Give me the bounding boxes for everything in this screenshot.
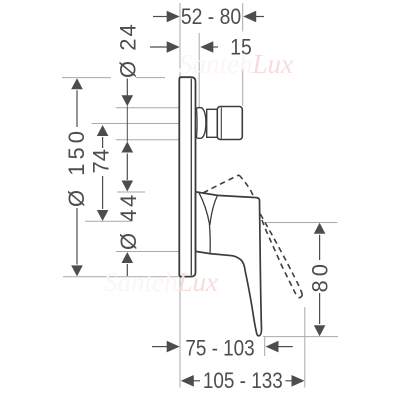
knob cap xyxy=(217,107,242,140)
wall plane extension line (top segment) xyxy=(179,3,181,77)
lever handle (solid, closed position) xyxy=(196,192,262,336)
svg-text:Ø 44: Ø 44 xyxy=(116,192,141,250)
svg-text:80: 80 xyxy=(308,260,333,292)
svg-text:105 - 133: 105 - 133 xyxy=(203,368,283,393)
knob bottom extension line xyxy=(116,139,179,141)
lever axis extension line left xyxy=(85,220,131,222)
escutcheon front extension line xyxy=(198,33,200,108)
lever top extension line xyxy=(117,191,145,193)
dashed-lever tip vertical extension line xyxy=(304,307,306,388)
lever base bottom extension line xyxy=(116,251,179,253)
svg-text:Ø 150: Ø 150 xyxy=(64,127,89,207)
wall plane extension line (bottom segment) xyxy=(179,277,181,388)
dimension Ø44 xyxy=(116,181,141,277)
lever tip vertical extension line xyxy=(264,337,266,356)
plate bottom extension line xyxy=(63,276,179,278)
dimension 75-103 xyxy=(152,336,293,361)
watermark SantehLux middle xyxy=(104,267,218,297)
cap end extension line xyxy=(242,3,244,106)
dimension 80 xyxy=(308,223,333,336)
plate top extension line xyxy=(62,77,165,79)
dimension 74 xyxy=(89,125,114,221)
svg-text:75 - 103: 75 - 103 xyxy=(185,336,254,361)
dimension 15 xyxy=(150,36,252,60)
escutcheon plate xyxy=(179,77,195,276)
lever tip bottom reference line xyxy=(263,336,338,338)
svg-text:Ø 24: Ø 24 xyxy=(116,22,141,78)
lever handle (dashed, open position) xyxy=(203,175,302,298)
svg-text:SantehLux: SantehLux xyxy=(179,49,293,79)
dimension Ø24 xyxy=(116,22,141,180)
dimension 105-133 xyxy=(181,368,305,393)
dimension Ø150 xyxy=(64,78,89,276)
knob axis extension line xyxy=(92,123,180,125)
svg-text:SantehLux: SantehLux xyxy=(104,267,218,297)
lever axis extension line right xyxy=(267,222,338,224)
knob top extension line xyxy=(116,107,179,109)
svg-text:52 - 80: 52 - 80 xyxy=(181,5,241,29)
watermark SantehLux top xyxy=(179,49,293,79)
svg-text:74: 74 xyxy=(89,149,114,173)
knob ring xyxy=(207,109,218,137)
escutcheon sleeve dome xyxy=(196,108,206,139)
dimension 52-80 xyxy=(153,5,264,29)
